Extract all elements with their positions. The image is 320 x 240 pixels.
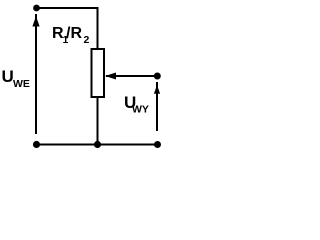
svg-text:WE: WE	[13, 78, 30, 90]
svg-text:/R: /R	[66, 25, 82, 42]
svg-text:2: 2	[84, 34, 90, 46]
svg-text:U: U	[2, 67, 14, 86]
svg-text:WY: WY	[132, 104, 149, 116]
